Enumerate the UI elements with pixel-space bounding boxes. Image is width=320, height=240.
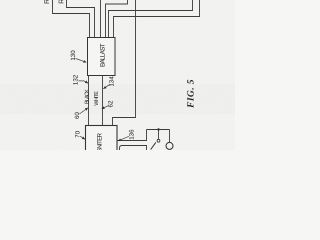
svg-text:WHITE: WHITE [94,91,100,106]
leader 60 [80,108,88,114]
wire C (straight vertical into ballast top) [100,0,102,38]
leader 136 [118,136,129,141]
svg-text:IGNITER: IGNITER [97,132,104,150]
wire long vertical from top down to igniter [113,0,136,126]
lamp terminal circle [166,142,173,149]
wire D (ballast top up, right, exits top at x127.5) [106,0,128,38]
svg-text:BALLAST: BALLAST [100,43,107,67]
svg-text:60: 60 [74,112,81,119]
wire E (ballast top up, right, exits top at x192) [109,0,193,38]
ballast box [88,38,116,76]
svg-text:132: 132 [73,74,80,85]
leader 132 [78,81,88,83]
wire 136 (igniter right to lamp circuit) [117,130,147,141]
wire lamp top horizontal [147,129,170,131]
paper background [0,0,235,150]
svg-text:134: 134 [109,76,116,87]
switch blade [151,142,156,149]
svg-text:R: R [59,0,66,4]
leader 62 [102,106,109,109]
wire RED B (second top-left elbow into ballast) [67,0,95,38]
svg-text:BLACK: BLACK [84,89,90,104]
switch contact circle [157,139,160,142]
igniter box [86,126,118,153]
svg-text:136: 136 [129,129,136,140]
leader 130 [76,59,87,63]
wire RED A (top-left elbow into ballast) [53,0,90,38]
wire WHITE (ballast bottom to igniter) [102,76,104,126]
junction dot [157,128,159,130]
wire switch drop [158,130,160,140]
leader 134 [103,84,109,88]
wire BLACK (ballast bottom to igniter) [88,76,90,126]
svg-text:R: R [44,0,51,4]
wire F (ballast top up, right, exits top at x200) [114,0,200,38]
svg-text:62: 62 [108,100,115,107]
svg-text:130: 130 [70,50,77,61]
leader 70 [80,136,85,139]
paper noise [0,0,235,150]
terminal strip box bottom [120,146,147,153]
svg-text:FIG. 5: FIG. 5 [187,79,197,109]
wire lamp drop [169,130,171,143]
